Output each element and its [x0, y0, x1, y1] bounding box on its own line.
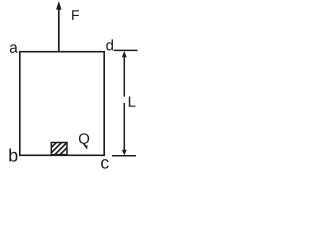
node d: [106, 39, 113, 50]
label F: [72, 10, 79, 20]
dimension top tick: [114, 49, 138, 51]
node c: [101, 159, 109, 169]
node b: [9, 148, 17, 161]
Q tail extension: [84, 144, 87, 149]
dimension arrow up: [122, 51, 127, 57]
dimension arrow down: [122, 150, 127, 156]
label L: [129, 96, 136, 106]
dimension line lower segment: [123, 103, 125, 151]
node a: [10, 44, 18, 52]
force arrow F head: [56, 1, 61, 10]
label Q: [79, 133, 89, 146]
block Q hatched: [37, 140, 75, 157]
dimension bottom tick: [112, 155, 136, 157]
square loop abcd: [20, 52, 104, 156]
force arrow F shaft: [58, 8, 60, 52]
dimension line upper segment: [123, 56, 125, 97]
